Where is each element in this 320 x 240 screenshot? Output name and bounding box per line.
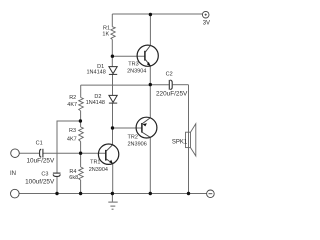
svg-text:SPK1: SPK1 (172, 139, 188, 145)
svg-text:1N4148: 1N4148 (86, 100, 105, 106)
svg-text:IN: IN (10, 171, 16, 177)
svg-text:3V: 3V (203, 21, 210, 27)
svg-text:TR3: TR3 (128, 62, 138, 68)
svg-text:2N3906: 2N3906 (128, 142, 147, 148)
svg-text:100uf/25V: 100uf/25V (25, 179, 55, 186)
svg-text:2N3904: 2N3904 (89, 167, 108, 173)
svg-text:10uF/25V: 10uF/25V (27, 158, 55, 165)
svg-text:R3: R3 (69, 128, 76, 134)
svg-text:C3: C3 (41, 172, 48, 178)
svg-text:C2: C2 (166, 71, 173, 77)
svg-text:R2: R2 (69, 95, 76, 101)
svg-text:C1: C1 (36, 140, 43, 146)
svg-text:220uF/25V: 220uF/25V (156, 91, 188, 98)
svg-text:6k8: 6k8 (69, 175, 78, 181)
svg-text:4K7: 4K7 (67, 102, 77, 108)
svg-text:1N4148: 1N4148 (87, 70, 106, 76)
svg-text:1K: 1K (102, 32, 109, 38)
svg-text:TR2: TR2 (128, 135, 138, 141)
svg-text:2N3904: 2N3904 (127, 69, 146, 75)
svg-text:4K7: 4K7 (67, 136, 77, 142)
svg-text:TR1: TR1 (90, 159, 100, 165)
